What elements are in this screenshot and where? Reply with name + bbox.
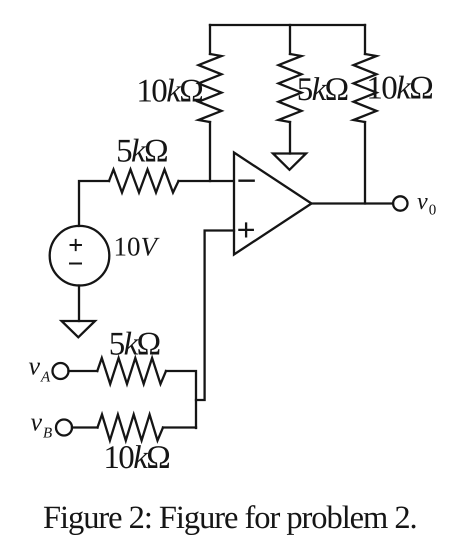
svg-text:v: v bbox=[417, 189, 428, 215]
svg-text:5kΩ: 5kΩ bbox=[297, 72, 348, 108]
svg-text:10V: 10V bbox=[114, 232, 161, 262]
svg-text:v: v bbox=[29, 352, 41, 381]
svg-text:v: v bbox=[31, 408, 43, 437]
svg-text:10kΩ: 10kΩ bbox=[366, 70, 432, 106]
svg-text:5kΩ: 5kΩ bbox=[116, 134, 167, 170]
svg-text:10kΩ: 10kΩ bbox=[103, 440, 169, 476]
svg-text:A: A bbox=[40, 370, 51, 386]
svg-text:5kΩ: 5kΩ bbox=[109, 327, 160, 363]
svg-text:10kΩ: 10kΩ bbox=[136, 74, 202, 110]
svg-text:0: 0 bbox=[429, 203, 437, 219]
svg-text:Figure 2: Figure for problem 2: Figure 2: Figure for problem 2. bbox=[43, 500, 417, 536]
svg-text:B: B bbox=[43, 426, 52, 442]
